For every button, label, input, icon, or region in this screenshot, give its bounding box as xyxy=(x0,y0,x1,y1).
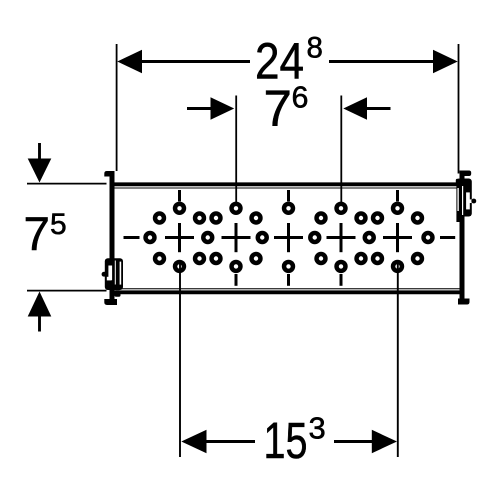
svg-text:3: 3 xyxy=(309,411,326,446)
svg-text:7: 7 xyxy=(24,208,50,261)
svg-text:8: 8 xyxy=(307,32,323,65)
svg-text:5: 5 xyxy=(50,208,67,241)
svg-text:15: 15 xyxy=(264,412,308,469)
svg-text:7: 7 xyxy=(264,80,292,137)
svg-text:6: 6 xyxy=(292,81,309,115)
